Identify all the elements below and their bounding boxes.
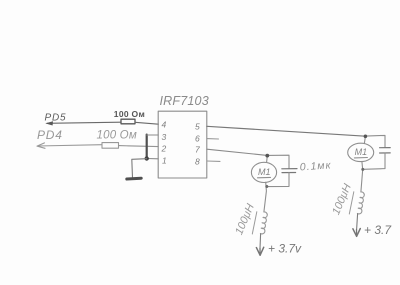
svg-text:100 Ом: 100 Ом — [97, 130, 137, 142]
svg-text:3: 3 — [162, 132, 167, 142]
svg-text:4: 4 — [162, 120, 167, 130]
svg-text:1: 1 — [162, 156, 167, 166]
svg-text:+ 3.7v: + 3.7v — [268, 242, 302, 256]
svg-text:0.1мк: 0.1мк — [299, 159, 332, 173]
svg-text:2: 2 — [161, 144, 167, 154]
svg-text:PD5: PD5 — [45, 112, 67, 123]
svg-text:M1: M1 — [258, 167, 271, 177]
svg-text:+ 3.7: + 3.7 — [364, 223, 392, 237]
svg-text:8: 8 — [195, 157, 200, 167]
svg-text:5: 5 — [195, 122, 200, 132]
svg-text:M1: M1 — [355, 147, 368, 157]
svg-text:6: 6 — [195, 134, 200, 144]
svg-text:7: 7 — [195, 145, 200, 155]
svg-text:PD4: PD4 — [37, 128, 63, 142]
svg-text:IRF7103: IRF7103 — [160, 94, 209, 108]
svg-text:100 Ом: 100 Ом — [114, 109, 145, 119]
